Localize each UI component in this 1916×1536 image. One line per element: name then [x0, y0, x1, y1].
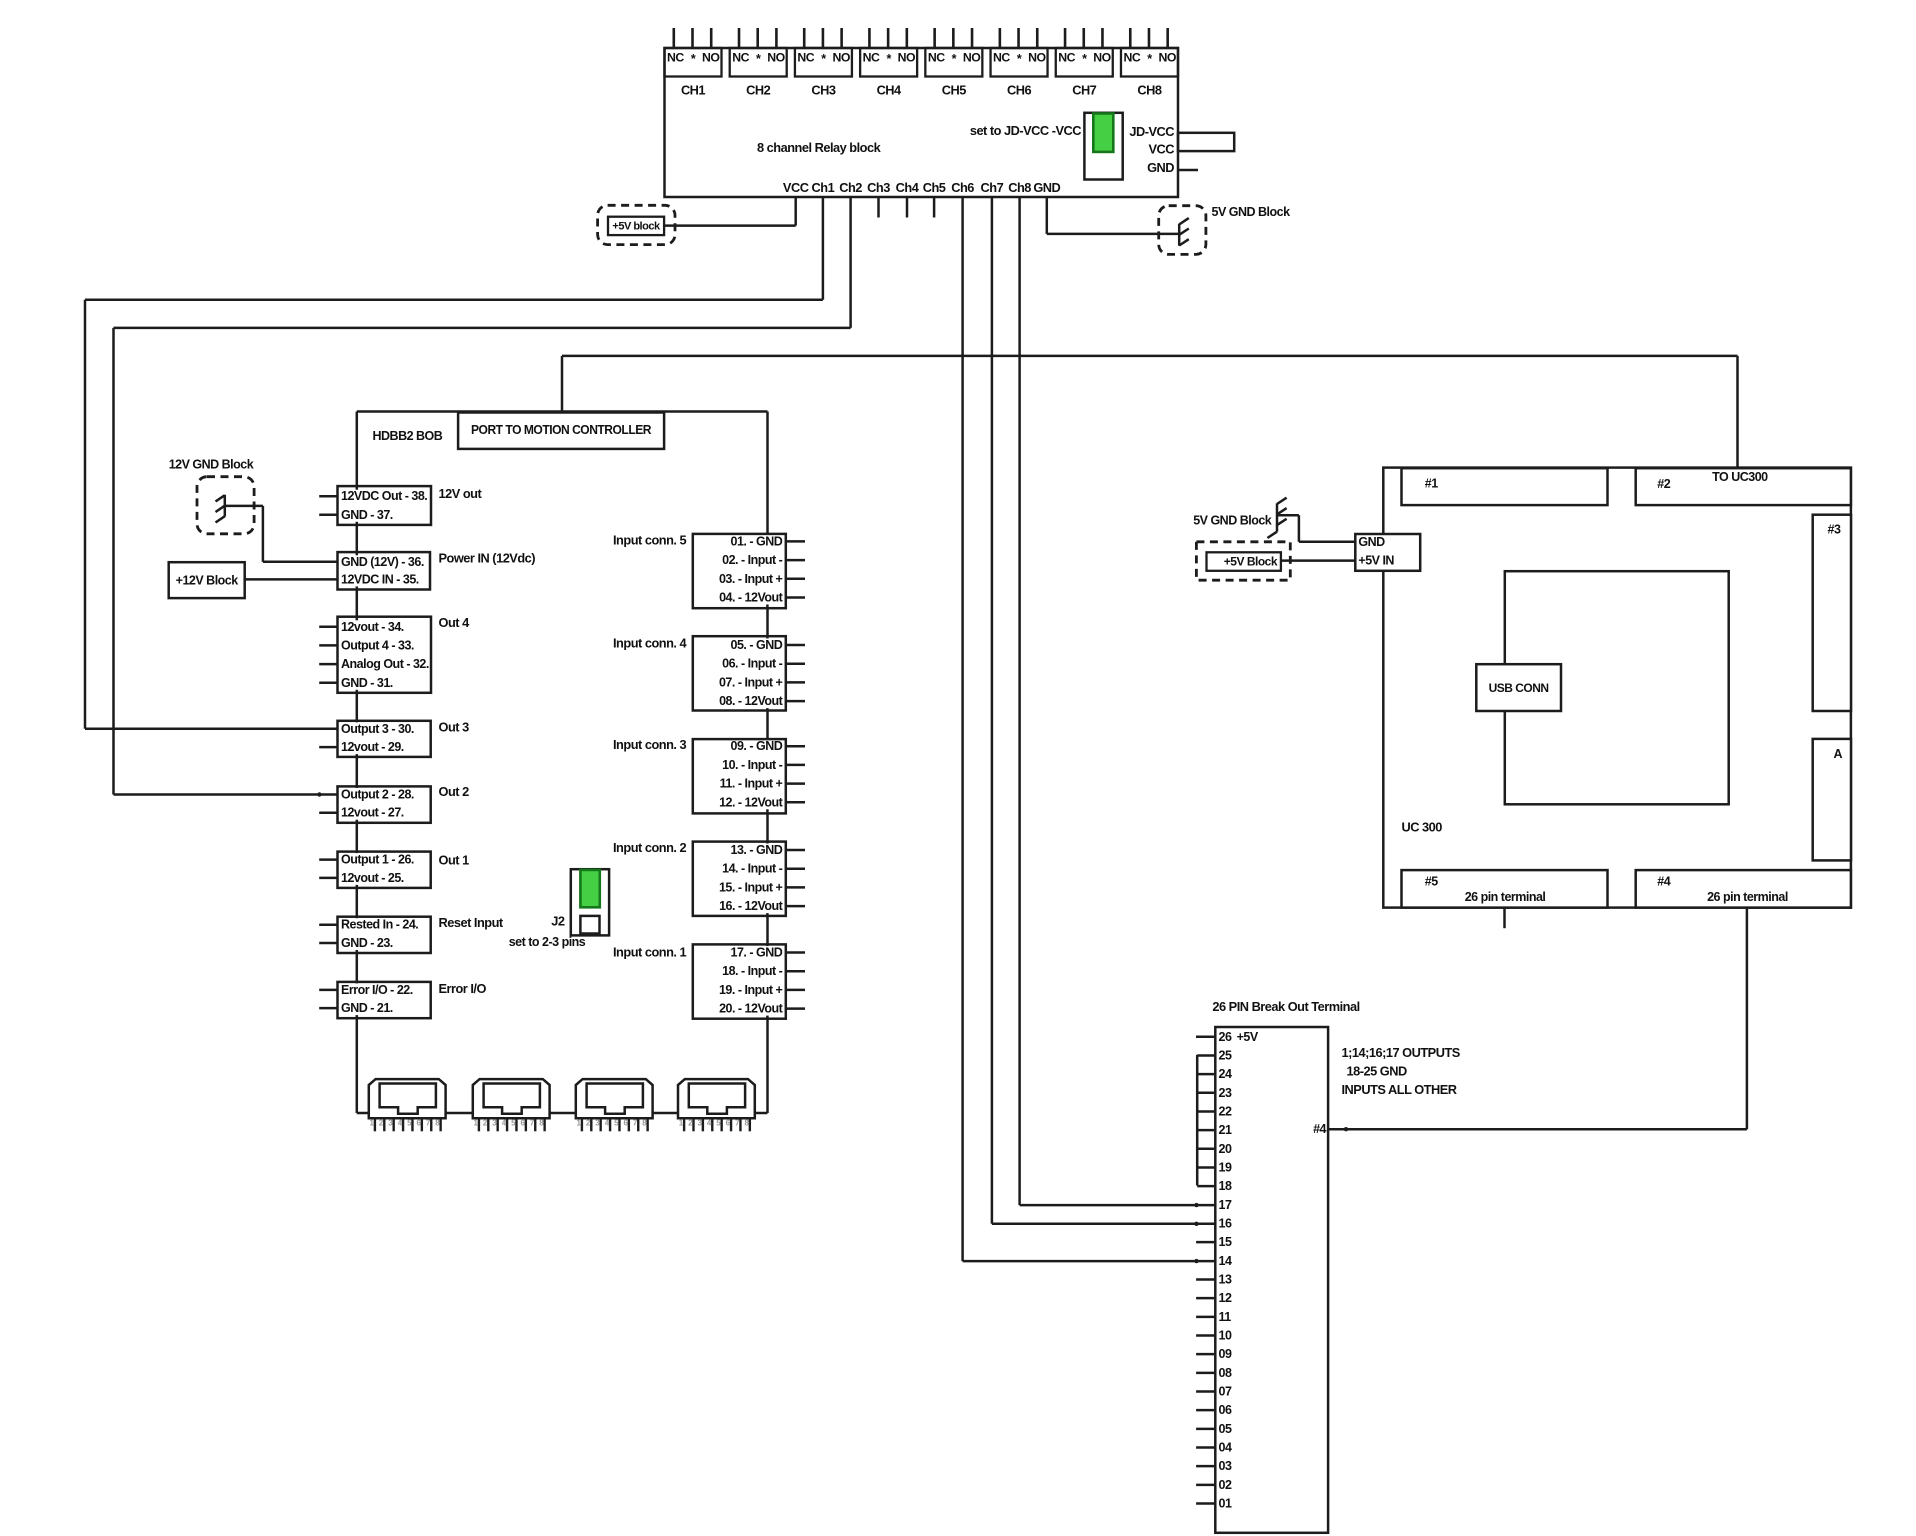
- pin: [739, 1118, 741, 1131]
- pin stub: [319, 811, 337, 814]
- svg-text:12vout - 29.: 12vout - 29.: [341, 740, 404, 754]
- svg-text:01: 01: [1219, 1497, 1232, 1511]
- pin: [392, 1118, 394, 1131]
- svg-text:#4: #4: [1313, 1122, 1326, 1136]
- svg-text:13: 13: [1219, 1272, 1232, 1286]
- svg-text:NO: NO: [898, 51, 916, 65]
- svg-text:+5V Block: +5V Block: [1224, 555, 1278, 569]
- wire: PORT TO MOTION CONTROLLER to UC300 #2: [561, 356, 564, 413]
- pin stub: [786, 989, 805, 992]
- svg-text:INPUTS ALL OTHER: INPUTS ALL OTHER: [1342, 1082, 1457, 1097]
- wire spine segment inside box: [356, 617, 359, 621]
- terminal: 26 PIN Break Out Terminal body: [1215, 1027, 1328, 1533]
- pin: [720, 1118, 722, 1131]
- svg-text:*: *: [952, 52, 957, 66]
- pin stub: [786, 970, 805, 973]
- svg-text:18: 18: [1219, 1179, 1232, 1193]
- wire: relay Ch1 to HDBB2 Output 3 (pin 30): [822, 197, 825, 300]
- pin: CH4 terminal: [887, 28, 890, 48]
- pin: [581, 1118, 583, 1131]
- svg-text:Out 2: Out 2: [439, 784, 470, 799]
- svg-text:Ch2: Ch2: [839, 180, 862, 195]
- svg-text:25: 25: [1219, 1048, 1232, 1062]
- svg-text:12VDC IN - 35.: 12VDC IN - 35.: [341, 572, 419, 586]
- svg-text:CH7: CH7: [1072, 83, 1096, 98]
- svg-text:CH2: CH2: [746, 83, 770, 98]
- svg-text:06: 06: [1219, 1403, 1232, 1417]
- svg-text:VCC: VCC: [783, 180, 809, 195]
- svg-text:Input conn. 1: Input conn. 1: [613, 945, 687, 960]
- svg-text:*: *: [756, 52, 761, 66]
- pin stub: [786, 578, 805, 581]
- svg-text:15: 15: [1219, 1235, 1232, 1249]
- wire: relay Ch7 to breakout pin 16: [991, 197, 994, 1224]
- svg-text:14: 14: [1219, 1254, 1232, 1268]
- svg-text:02: 02: [1219, 1478, 1232, 1492]
- connector: Input conn. 3: [693, 739, 786, 813]
- pin stub: [319, 682, 337, 685]
- pin: [478, 1118, 480, 1131]
- relay CH7 contact block (NC * NO): [1056, 48, 1113, 77]
- pin: [749, 1118, 751, 1131]
- svg-text:UC 300: UC 300: [1402, 819, 1443, 834]
- svg-text:04. - 12Vout: 04. - 12Vout: [719, 591, 784, 605]
- svg-text:+12V Block: +12V Block: [176, 574, 239, 588]
- terminal: 12V out (pins 38,37): [338, 486, 432, 525]
- svg-text:NO: NO: [1093, 51, 1111, 65]
- pin stub: [786, 849, 805, 852]
- svg-text:11: 11: [1219, 1310, 1232, 1324]
- wire spine segment inside box: [766, 738, 769, 741]
- wire spine segment inside box: [356, 982, 359, 984]
- svg-text:24: 24: [1219, 1067, 1232, 1081]
- relay CH6 contact block (NC * NO): [991, 48, 1048, 77]
- svg-text:05: 05: [1219, 1422, 1232, 1436]
- connector: HDBB2 output header 4: [678, 1079, 755, 1118]
- terminal A on UC300: [1813, 739, 1851, 861]
- wire: +5V Block to UC300 +5V IN: [1281, 559, 1355, 562]
- svg-text:A: A: [1834, 747, 1843, 761]
- svg-text:CH8: CH8: [1137, 83, 1161, 98]
- board HDBB2 BOB outline: [357, 410, 768, 413]
- svg-text:Error I/O: Error I/O: [439, 981, 487, 996]
- pin: [430, 1118, 432, 1131]
- pin: [599, 1118, 601, 1131]
- svg-text:NO: NO: [1028, 51, 1046, 65]
- wire: JD-VCC to VCC jumper loop: [1178, 133, 1234, 151]
- pin: CH5 terminal: [952, 28, 955, 48]
- jumper J2 (green shunt, set to 2-3): [571, 869, 609, 935]
- pin: CH4 terminal: [868, 28, 871, 48]
- svg-text:NO: NO: [832, 51, 850, 65]
- svg-text:Output 2 - 28.: Output 2 - 28.: [341, 788, 414, 802]
- svg-text:02. - Input -: 02. - Input -: [722, 553, 783, 567]
- svg-text:Ch5: Ch5: [923, 180, 946, 195]
- svg-text:16: 16: [1219, 1216, 1232, 1230]
- svg-text:CH5: CH5: [942, 83, 966, 98]
- connector: Input conn. 2: [693, 842, 786, 916]
- svg-text:12: 12: [1219, 1291, 1232, 1305]
- wire: 5V GND to UC300 GND pin: [1277, 514, 1299, 517]
- svg-text:26 pin terminal: 26 pin terminal: [1707, 890, 1788, 904]
- wire: breakout #4 to UC300 26 pin terminal #4: [1328, 1128, 1747, 1131]
- svg-text:Output 1 - 26.: Output 1 - 26.: [341, 853, 414, 867]
- svg-text:#5: #5: [1425, 875, 1438, 889]
- svg-text:Ch1: Ch1: [812, 180, 835, 195]
- pin stub: [319, 989, 337, 992]
- terminal: Out 2 (pins 28,27): [338, 786, 431, 822]
- pin: [421, 1118, 423, 1131]
- pin: [496, 1118, 498, 1131]
- svg-text:set to 2-3 pins: set to 2-3 pins: [509, 935, 586, 949]
- pin: [730, 1118, 732, 1131]
- pin: [506, 1118, 508, 1131]
- connector USB CONN: [1476, 664, 1561, 711]
- pin: CH7 terminal: [1064, 28, 1067, 48]
- svg-text:#1: #1: [1425, 477, 1438, 491]
- svg-text:Output 4 - 33.: Output 4 - 33.: [341, 638, 414, 652]
- pin stub: [319, 495, 337, 498]
- svg-text:*: *: [1082, 52, 1087, 66]
- svg-text:Ch4: Ch4: [896, 180, 920, 195]
- svg-text:GND - 37.: GND - 37.: [341, 508, 393, 522]
- svg-text:TO UC300: TO UC300: [1712, 470, 1768, 484]
- svg-text:Rested In - 24.: Rested In - 24.: [341, 918, 418, 932]
- svg-text:PORT TO MOTION CONTROLLER: PORT TO MOTION CONTROLLER: [471, 423, 651, 437]
- junction dots: [1194, 1203, 1198, 1207]
- svg-text:22: 22: [1219, 1104, 1232, 1118]
- pin: CH2 terminal: [756, 28, 759, 48]
- wire spine segment inside box: [356, 486, 359, 490]
- terminal: Out 1 (pins 26,25): [338, 852, 431, 888]
- wire: relay Ch3 stub: [877, 197, 880, 218]
- svg-text:5V GND Block: 5V GND Block: [1212, 205, 1291, 219]
- pin stub: [786, 662, 805, 665]
- pin stub: [319, 858, 337, 861]
- wire: relay Ch8 to breakout pin 17: [1018, 197, 1021, 1205]
- pin stub: [319, 1007, 337, 1010]
- terminal #3 on UC300: [1813, 515, 1851, 711]
- svg-text:NC: NC: [993, 51, 1010, 65]
- terminal GND / +5V IN on UC300: [1355, 534, 1420, 571]
- pin stub: [786, 681, 805, 684]
- relay module U1: 8 channel Relay block body: [665, 48, 1179, 197]
- svg-text:HDBB2 BOB: HDBB2 BOB: [373, 429, 443, 443]
- terminal: Error I/O (pins 22,21): [338, 982, 431, 1018]
- svg-text:NC: NC: [863, 51, 880, 65]
- wire spine segment inside box: [356, 786, 359, 788]
- pin: CH3 terminal: [803, 28, 806, 48]
- svg-text:23: 23: [1219, 1086, 1232, 1100]
- terminal: Power IN 12Vdc (pins 36,35): [338, 552, 431, 589]
- svg-text:Reset Input: Reset Input: [439, 915, 504, 930]
- svg-text:12. - 12Vout: 12. - 12Vout: [719, 795, 784, 809]
- wire spine segment inside box: [766, 944, 769, 946]
- svg-text:15. - Input +: 15. - Input +: [719, 880, 783, 894]
- terminal: Out 4 (pins 34-31): [338, 617, 432, 693]
- pin: [683, 1118, 685, 1131]
- pin: CH1 terminal: [672, 28, 675, 48]
- svg-text:08: 08: [1219, 1366, 1232, 1380]
- svg-text:20: 20: [1219, 1142, 1232, 1156]
- wire: relay Ch6 to breakout pin 14: [961, 197, 964, 1261]
- pin: [439, 1118, 441, 1131]
- pin stub: [319, 626, 337, 629]
- pin stub: [786, 1007, 805, 1010]
- svg-text:10: 10: [1219, 1328, 1232, 1342]
- pin: CH8 terminal: [1129, 28, 1132, 48]
- svg-text:*: *: [886, 52, 891, 66]
- wire spine segment inside box: [356, 552, 359, 555]
- svg-text:13. - GND: 13. - GND: [731, 843, 783, 857]
- svg-text:GND - 23.: GND - 23.: [341, 936, 393, 950]
- svg-text:GND: GND: [1147, 160, 1174, 175]
- svg-text:04: 04: [1219, 1440, 1232, 1454]
- svg-text:10. - Input -: 10. - Input -: [722, 758, 783, 772]
- relay CH2 contact block (NC * NO): [730, 48, 787, 77]
- pin: [383, 1118, 385, 1131]
- svg-text:USB CONN: USB CONN: [1489, 681, 1549, 695]
- svg-text:NO: NO: [702, 51, 720, 65]
- wire: stub below #5: [1503, 908, 1506, 929]
- svg-text:#4: #4: [1657, 875, 1670, 889]
- pin stub: [786, 745, 805, 748]
- pin stub: [319, 746, 337, 749]
- svg-text:03: 03: [1219, 1459, 1232, 1473]
- board UC300 outline: [1383, 468, 1851, 908]
- svg-text:07: 07: [1219, 1384, 1232, 1398]
- svg-text:NO: NO: [767, 51, 785, 65]
- pin stub: [319, 923, 337, 926]
- pin: [374, 1118, 376, 1131]
- svg-text:NC: NC: [797, 51, 814, 65]
- svg-text:19: 19: [1219, 1160, 1232, 1174]
- pin stub: [786, 644, 805, 647]
- svg-text:J2: J2: [551, 914, 565, 929]
- svg-text:JD-VCC: JD-VCC: [1129, 124, 1174, 139]
- pin stub: [786, 951, 805, 954]
- svg-text:+5V IN: +5V IN: [1358, 554, 1394, 568]
- pin: CH4 terminal: [906, 28, 909, 48]
- svg-text:NC: NC: [732, 51, 749, 65]
- svg-text:GND - 21.: GND - 21.: [341, 1001, 393, 1015]
- wire: relay Ch4 stub: [906, 197, 909, 218]
- svg-text:NC: NC: [1123, 51, 1140, 65]
- pin: [692, 1118, 694, 1131]
- svg-text:Input conn. 3: Input conn. 3: [613, 737, 687, 752]
- pin: [702, 1118, 704, 1131]
- svg-text:GND - 31.: GND - 31.: [341, 676, 393, 690]
- svg-text:Out 1: Out 1: [439, 852, 470, 867]
- terminal #5 on UC300 (26 pin): [1402, 870, 1608, 908]
- svg-text:14. - Input -: 14. - Input -: [722, 862, 783, 876]
- svg-text:*: *: [691, 52, 696, 66]
- ground: 5V GND Block (relay): [1159, 206, 1206, 255]
- connector: Input conn. 1: [693, 944, 786, 1018]
- svg-text:Input conn. 4: Input conn. 4: [613, 635, 688, 650]
- pin stub: [786, 596, 805, 599]
- relay CH1 contact block (NC * NO): [665, 48, 722, 77]
- svg-text:Error I/O - 22.: Error I/O - 22.: [341, 983, 413, 997]
- svg-text:Out 4: Out 4: [439, 615, 471, 630]
- wire: relay Ch2 to HDBB2 Output 2 (pin 28): [849, 197, 852, 328]
- connector: HDBB2 output header 2: [473, 1079, 550, 1118]
- wire spine segment inside box: [766, 842, 769, 844]
- svg-text:07. - Input +: 07. - Input +: [719, 675, 783, 689]
- pin stub: [786, 764, 805, 767]
- pin: [515, 1118, 517, 1131]
- svg-text:09: 09: [1219, 1347, 1232, 1361]
- power block: +12V Block: [169, 562, 245, 598]
- svg-text:NO: NO: [963, 51, 981, 65]
- pin: CH1 terminal: [710, 28, 713, 48]
- relay CH4 contact block (NC * NO): [860, 48, 917, 77]
- pin: CH8 terminal: [1166, 28, 1169, 48]
- svg-text:GND: GND: [1358, 535, 1385, 549]
- jumper J-VCC on relay (green shunt): [1084, 113, 1122, 180]
- pin: CH3 terminal: [822, 28, 825, 48]
- svg-text:*: *: [821, 52, 826, 66]
- svg-text:11. - Input +: 11. - Input +: [720, 777, 783, 791]
- pin: [637, 1118, 639, 1131]
- terminal: Out 3 (pins 30,29): [338, 721, 431, 757]
- pin: [628, 1118, 630, 1131]
- svg-text:Analog Out - 32.: Analog Out - 32.: [341, 657, 429, 671]
- svg-text:Ch7: Ch7: [981, 180, 1004, 195]
- svg-text:NC: NC: [667, 51, 684, 65]
- svg-text:CH4: CH4: [877, 83, 902, 98]
- pin: CH6 terminal: [999, 28, 1002, 48]
- pin stub: [786, 905, 805, 908]
- terminal #4 on UC300 (26 pin): [1636, 870, 1851, 908]
- svg-text:Input conn. 2: Input conn. 2: [613, 840, 687, 855]
- pin stub: [319, 644, 337, 647]
- svg-text:09. - GND: 09. - GND: [731, 739, 783, 753]
- svg-text:NC: NC: [1058, 51, 1075, 65]
- svg-text:12VDC Out - 38.: 12VDC Out - 38.: [341, 489, 427, 503]
- svg-text:#3: #3: [1828, 523, 1841, 537]
- wire spine segment inside box: [356, 852, 359, 854]
- pin: [411, 1118, 413, 1131]
- connector: Input conn. 5: [693, 534, 786, 608]
- svg-text:#2: #2: [1657, 477, 1670, 491]
- pin: [590, 1118, 592, 1131]
- wire: relay GND stub: [1178, 169, 1198, 172]
- terminal #1 on UC300: [1402, 468, 1608, 505]
- svg-text:17: 17: [1219, 1198, 1232, 1212]
- relay CH8 contact block (NC * NO): [1121, 48, 1178, 77]
- pin: CH8 terminal: [1148, 28, 1151, 48]
- pin stub: [319, 514, 337, 517]
- pin stub: [786, 886, 805, 889]
- svg-text:26 PIN Break Out Terminal: 26 PIN Break Out Terminal: [1212, 999, 1359, 1014]
- pin: CH6 terminal: [1036, 28, 1039, 48]
- svg-text:8 channel Relay block: 8 channel Relay block: [757, 140, 882, 155]
- svg-text:Out 3: Out 3: [439, 720, 470, 735]
- pin: [402, 1118, 404, 1131]
- power block: +5V Block (UC300): [1196, 542, 1290, 580]
- svg-text:17. - GND: 17. - GND: [731, 946, 783, 960]
- svg-text:set to JD-VCC -VCC: set to JD-VCC -VCC: [970, 123, 1081, 138]
- wire: relay Ch5 stub: [933, 197, 936, 218]
- bus bracket pins 18-25 (GND): [1196, 1055, 1199, 1186]
- svg-text:CH1: CH1: [681, 83, 705, 98]
- svg-text:CH3: CH3: [811, 83, 835, 98]
- svg-text:16. - 12Vout: 16. - 12Vout: [719, 899, 784, 913]
- svg-text:CH6: CH6: [1007, 83, 1031, 98]
- pin stub: [319, 877, 337, 880]
- svg-text:NC: NC: [928, 51, 945, 65]
- svg-text:03. - Input +: 03. - Input +: [719, 572, 783, 586]
- svg-text:12vout - 27.: 12vout - 27.: [341, 806, 404, 820]
- svg-text:GND: GND: [1033, 180, 1060, 195]
- svg-text:08. - 12Vout: 08. - 12Vout: [719, 694, 784, 708]
- pin: CH5 terminal: [933, 28, 936, 48]
- svg-text:20. - 12Vout: 20. - 12Vout: [719, 1002, 784, 1016]
- pin: [618, 1118, 620, 1131]
- pin: [609, 1118, 611, 1131]
- svg-text:Ch8: Ch8: [1008, 180, 1031, 195]
- pin: [543, 1118, 545, 1131]
- connector: HDBB2 output header 3: [576, 1079, 653, 1118]
- pin stub: [786, 782, 805, 785]
- svg-text:12V GND Block: 12V GND Block: [169, 457, 254, 471]
- relay CH5 contact block (NC * NO): [925, 48, 982, 77]
- svg-text:+5V: +5V: [1237, 1030, 1259, 1044]
- pin: CH6 terminal: [1017, 28, 1020, 48]
- svg-text:12vout - 25.: 12vout - 25.: [341, 871, 404, 885]
- wire spine segment inside box: [766, 636, 769, 638]
- svg-text:*: *: [1147, 52, 1152, 66]
- svg-text:12vout - 34.: 12vout - 34.: [341, 620, 404, 634]
- connector: Input conn. 4: [693, 636, 786, 710]
- svg-text:*: *: [1017, 52, 1022, 66]
- pin: [534, 1118, 536, 1131]
- svg-text:06. - Input -: 06. - Input -: [722, 657, 783, 671]
- pin stub: [319, 663, 337, 666]
- svg-text:Output 3 - 30.: Output 3 - 30.: [341, 722, 414, 736]
- svg-text:19. - Input +: 19. - Input +: [719, 983, 783, 997]
- svg-text:01. - GND: 01. - GND: [731, 534, 783, 548]
- svg-text:VCC: VCC: [1148, 141, 1174, 156]
- terminal #2 on UC300: [1636, 468, 1851, 505]
- svg-text:18. - Input -: 18. - Input -: [722, 964, 783, 978]
- svg-text:Ch6: Ch6: [951, 180, 974, 195]
- pin: CH7 terminal: [1101, 28, 1104, 48]
- connector: HDBB2 output header 1: [369, 1079, 446, 1118]
- relay CH3 contact block (NC * NO): [795, 48, 852, 77]
- connector: PORT TO MOTION CONTROLLER: [458, 413, 664, 449]
- wire spine segment inside box: [356, 917, 359, 919]
- pin: [646, 1118, 648, 1131]
- pin: [711, 1118, 713, 1131]
- pin stub: [786, 540, 805, 543]
- wire: 12V GND block to pin 36: [225, 505, 263, 508]
- wire: relay bottom VCC pin to +5V block: [794, 197, 797, 226]
- svg-text:26: 26: [1219, 1030, 1232, 1044]
- svg-text:05. - GND: 05. - GND: [731, 638, 783, 652]
- svg-text:21: 21: [1219, 1123, 1232, 1137]
- svg-text:12V out: 12V out: [439, 486, 483, 501]
- wire spine segment inside box: [356, 721, 359, 723]
- svg-text:18-25 GND: 18-25 GND: [1347, 1064, 1407, 1079]
- svg-text:26 pin terminal: 26 pin terminal: [1465, 890, 1546, 904]
- wire: relay GND to 5V GND block: [1046, 197, 1049, 234]
- wire spine segment inside box: [766, 534, 769, 535]
- pin: [525, 1118, 527, 1131]
- pin stub: [786, 559, 805, 562]
- wire: +12V block to pin 35: [245, 578, 338, 581]
